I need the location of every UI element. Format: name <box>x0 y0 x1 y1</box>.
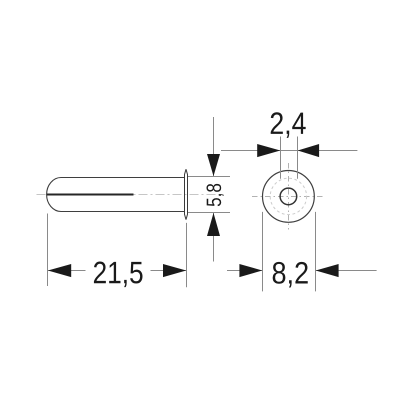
pin flange <box>185 169 187 219</box>
dim 21,5 extension line right <box>186 223 188 287</box>
dim 2,4 label <box>271 112 306 138</box>
dim 2,4 arrow left <box>257 144 280 157</box>
dim 8,2 extension line left <box>262 212 264 292</box>
front view vertical centerline <box>288 163 290 230</box>
centerline side view <box>37 193 220 195</box>
dim 5,8 extension line top <box>188 176 230 178</box>
front view hole circle <box>280 188 297 205</box>
dim 5,8 label <box>206 184 223 206</box>
dim 5,8 arrow bottom <box>207 213 220 236</box>
dim 8,2 line left segment <box>227 270 263 272</box>
dim 2,4 line <box>221 150 357 152</box>
dim 2,4 extension line right <box>297 137 299 179</box>
dim 5,8 extension line bottom <box>188 212 230 214</box>
dim 21,5 arrow right <box>163 264 186 277</box>
front view dashed circle <box>270 178 306 214</box>
dim 21,5 label <box>94 262 143 288</box>
pin rounded left end <box>47 178 61 212</box>
dim 2,4 arrow right <box>298 144 319 157</box>
dim 5,8 arrow top <box>207 154 220 176</box>
dim 21,5 extension line left <box>47 214 49 287</box>
dim 21,5 line left segment <box>48 270 86 272</box>
dim 21,5 arrow left <box>48 264 71 277</box>
dim 8,2 label <box>273 262 308 288</box>
pin body bottom outline <box>61 211 185 213</box>
dim 5,8 line top segment <box>213 117 215 177</box>
pin slot line <box>47 193 134 195</box>
dim 2,4 extension line left <box>280 137 282 179</box>
dim 8,2 arrow left <box>239 264 262 277</box>
pin body top outline <box>61 177 185 179</box>
dim 8,2 arrow right <box>316 264 339 277</box>
front view outer circle <box>263 171 315 223</box>
dim 5,8 line bottom segment <box>213 213 215 262</box>
front view horizontal centerline <box>252 196 326 198</box>
dim 21,5 line right segment <box>151 270 187 272</box>
dim 8,2 line right segment <box>316 270 377 272</box>
dim 8,2 extension line right <box>315 212 317 292</box>
